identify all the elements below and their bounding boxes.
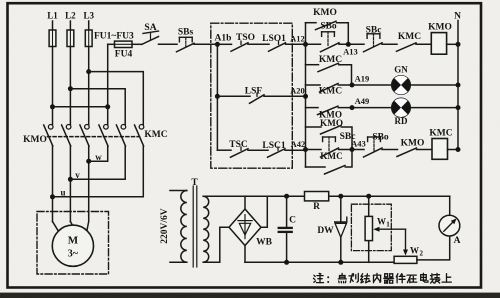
pushbutton SBo stop-open bbox=[368, 136, 381, 138]
node w junction bbox=[86, 159, 91, 164]
rectifier WB diode symbol bbox=[244, 215, 246, 239]
dash-dot enclosure W1 bbox=[351, 204, 391, 250]
junction N top bbox=[456, 42, 461, 47]
contact KM main pole 3 fixed bbox=[85, 125, 90, 130]
wire SBs to A1b bbox=[194, 43, 217, 45]
potentiometer W1 bbox=[365, 216, 372, 240]
scan noise texture bbox=[0, 0, 1, 1]
wire KMO holding branch right bbox=[337, 23, 349, 45]
node A12 bbox=[303, 42, 308, 47]
wire W1 branch bbox=[368, 196, 370, 262]
node A42 bbox=[303, 147, 308, 152]
contact KM main pole 5 fixed bbox=[121, 125, 126, 130]
wire FU4 feed bbox=[108, 43, 115, 45]
junction LSF tap bbox=[215, 94, 220, 99]
wire A42 to SBc gap bbox=[306, 149, 322, 151]
wire dc minus rail bbox=[245, 261, 395, 263]
wire rail to ammeter bbox=[449, 196, 451, 215]
node A1b bbox=[215, 42, 220, 47]
wire bridge dc+ right corner bbox=[261, 196, 267, 227]
contact KM main pole 1 fixed bbox=[48, 125, 53, 130]
wire A12 to SBo gap bbox=[306, 43, 321, 45]
wire KMO pole3 to node w bbox=[88, 146, 90, 215]
contact KMO row3 bbox=[318, 106, 339, 115]
junction L2 tap bbox=[68, 86, 73, 91]
wire motor lead u bbox=[53, 222, 59, 232]
wire SBc to KMC interlock bbox=[382, 43, 397, 45]
wire KMC pole6 to node u bbox=[53, 146, 144, 197]
junction C bottom bbox=[284, 260, 289, 265]
lamp RD bbox=[392, 98, 411, 117]
wire secondary top rail bbox=[203, 195, 450, 197]
wire L2 vertical bbox=[69, 21, 71, 125]
zener diode DW bbox=[335, 217, 347, 222]
note text: components inside dash-dot lines are on the electrical assembly bbox=[313, 273, 451, 283]
contact LSC1 bbox=[277, 147, 279, 150]
wire SA to SBs bbox=[159, 43, 178, 45]
dash-dot enclosure motor bbox=[37, 212, 109, 275]
wire KMC row to A19 bbox=[339, 65, 352, 85]
wire L2 tap to KMC column 5 bbox=[70, 89, 125, 125]
wire C branch top bbox=[286, 196, 288, 227]
wire LSO1 to A12 bbox=[286, 43, 306, 45]
wire A1b vertical bbox=[216, 44, 218, 150]
junction bus right / FU4 feed bbox=[105, 104, 110, 109]
contact TSO bbox=[240, 41, 242, 44]
wire RD to N bbox=[410, 107, 458, 109]
wire KMC column 4 vertical / FU4 drop bbox=[107, 44, 109, 124]
wire wiper W1 to W2 bbox=[405, 229, 407, 251]
node A13 bbox=[346, 42, 351, 47]
wire SBc to A43 bbox=[339, 149, 365, 151]
wire DW branch bbox=[340, 196, 342, 262]
fuse FU3 bbox=[85, 30, 92, 47]
wire row3 left bbox=[306, 107, 319, 109]
wire primary top stub bbox=[170, 190, 187, 192]
contact KMO holding bbox=[316, 21, 337, 30]
wire L1 vertical bbox=[52, 21, 54, 125]
wire KMC coil to N bbox=[448, 149, 459, 151]
contact KMO interlock bottom bbox=[397, 148, 417, 157]
wire row2 to A19 and lamp GN bbox=[338, 84, 391, 86]
contact KM main pole 4 blade bbox=[99, 125, 108, 146]
contact KM main pole 1 blade bbox=[44, 125, 53, 146]
wire SBo to A13 bbox=[339, 43, 364, 45]
wire KMO branch to A43 bbox=[341, 127, 352, 150]
potentiometer W2 bbox=[394, 256, 417, 263]
transformer T secondary winding bbox=[203, 196, 209, 262]
junction W1 top bbox=[366, 194, 371, 199]
node A20 bbox=[303, 94, 308, 99]
pushbutton SBc close bbox=[323, 136, 336, 138]
wire LSF to A20 bbox=[264, 95, 306, 97]
junction N bottom bbox=[456, 147, 461, 152]
rectifier WB diamond bbox=[229, 209, 261, 246]
wire KMO pole1 to node u bbox=[52, 146, 54, 222]
wire A1b to TSO bbox=[217, 43, 231, 45]
transformer T primary winding bbox=[181, 191, 187, 263]
contact KM main pole 6 fixed bbox=[139, 125, 144, 130]
wire bridge dc- bottom bbox=[244, 246, 246, 263]
switch SA bbox=[142, 37, 159, 45]
dash-dot enclosure limit switches bbox=[211, 23, 292, 168]
wire relay left vertical bbox=[305, 23, 307, 167]
contact TSC bbox=[240, 147, 242, 150]
wire KMC holding branch left bbox=[306, 166, 326, 168]
wire SBo to KMO interlock bbox=[382, 149, 398, 151]
wire motor lead w bbox=[87, 215, 89, 231]
junction C top bbox=[284, 194, 289, 199]
wire to KMO coil bbox=[416, 43, 431, 45]
wire motor lead v bbox=[70, 222, 72, 226]
fuse FU1 bbox=[49, 30, 56, 47]
wire KMO holding branch left bbox=[306, 22, 317, 24]
wire FU4 to SA bbox=[132, 43, 142, 45]
transformer T core bbox=[192, 186, 194, 267]
pushbutton SBo open bbox=[322, 31, 335, 33]
wire KMC row left bbox=[306, 64, 319, 66]
wire TSC to LSC1 bbox=[248, 149, 268, 151]
wire secondary bottom to bridge ac2 bbox=[203, 227, 229, 262]
junction DW bottom bbox=[338, 260, 343, 265]
fuse FU4 bbox=[115, 41, 133, 47]
wire KMC pole4 to node w bbox=[89, 146, 108, 161]
wire KMO coil to N bbox=[447, 43, 458, 45]
wire KMO pole2 to node v bbox=[69, 146, 71, 222]
wire primary bottom stub bbox=[170, 261, 187, 263]
wire W2 to ammeter bbox=[417, 236, 450, 260]
pushbutton SBs bbox=[179, 36, 192, 38]
wire to LSF bbox=[217, 95, 250, 97]
junction N at RD bbox=[456, 105, 461, 110]
junction L1 bus left bbox=[50, 104, 55, 109]
wire row2 left bbox=[306, 84, 321, 86]
junction L3 tap bbox=[86, 69, 91, 74]
wire N vertical bbox=[457, 21, 459, 150]
motor M bbox=[52, 225, 93, 266]
node A19 bbox=[350, 83, 355, 88]
contact KMC holding bbox=[325, 166, 346, 175]
wire KMO branch left bbox=[306, 126, 322, 128]
node A43 bbox=[350, 147, 355, 152]
node u junction bbox=[50, 194, 55, 199]
contact KM main pole 2 blade bbox=[62, 125, 71, 146]
contact KMC row1 bbox=[318, 63, 339, 71]
wire to KMC coil bbox=[417, 149, 433, 151]
contact KMC row2 bbox=[320, 84, 339, 93]
pushbutton SBc stop-close bbox=[367, 33, 380, 35]
wire row3 to A49 and lamp RD bbox=[338, 107, 391, 109]
resistor R bbox=[305, 192, 329, 201]
contact KM main pole 2 fixed bbox=[66, 125, 71, 130]
wire TSO to LSO1 bbox=[248, 43, 269, 45]
fuse FU2 bbox=[67, 30, 74, 47]
linkage dashed line KMO-KMC bbox=[48, 136, 140, 138]
node v junction bbox=[68, 177, 73, 182]
wire L3 tap to KMC column 6 bbox=[89, 72, 144, 125]
contact KMC interlock top bbox=[397, 43, 417, 52]
capacitor C bbox=[279, 227, 292, 229]
wire L3 vertical bbox=[88, 21, 90, 125]
junction DW top bbox=[338, 194, 343, 199]
wiper W1 arrow bbox=[377, 228, 406, 230]
contact KMO branch bbox=[321, 126, 342, 135]
wire TSC row bbox=[217, 149, 231, 151]
contact LSF bbox=[256, 93, 258, 96]
junction N at GN bbox=[456, 83, 461, 88]
wire GN to N bbox=[410, 84, 458, 86]
contact KM main pole 4 fixed bbox=[104, 125, 109, 130]
wiper W2 arrow bbox=[403, 250, 408, 256]
wire KMC pole5 to node v bbox=[70, 146, 125, 179]
contact KM main pole 5 blade bbox=[116, 125, 125, 146]
ammeter A bbox=[439, 215, 460, 236]
contact KM main pole 3 blade bbox=[80, 125, 89, 146]
coil KMC bbox=[432, 139, 448, 160]
node A49 bbox=[350, 105, 355, 110]
contact KM main pole 6 blade bbox=[135, 125, 144, 146]
contact LSO1 bbox=[278, 41, 280, 44]
wire LSC1 to A42 bbox=[285, 149, 306, 151]
wire L1 bus to KMC column 4 bbox=[53, 106, 108, 108]
coil KMO bbox=[431, 33, 446, 55]
wire bridge ac1 top bbox=[244, 196, 246, 209]
scan smudge bottom edge bbox=[0, 293, 500, 298]
wire C branch bottom bbox=[286, 232, 288, 262]
lamp GN bbox=[392, 76, 411, 95]
wire KMC holding branch right bbox=[345, 150, 352, 168]
